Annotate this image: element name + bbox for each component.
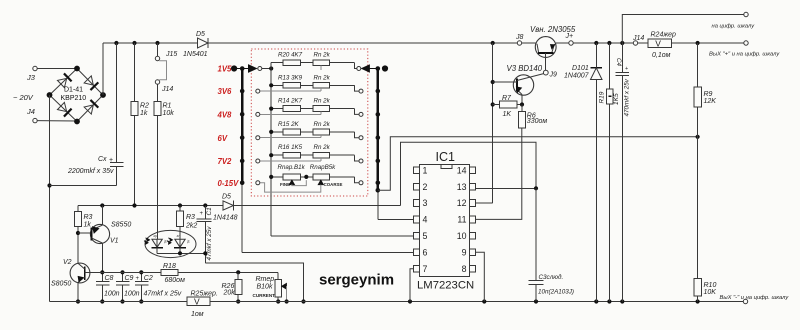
svg-text:IC1: IC1	[436, 150, 456, 164]
svg-text:HL: HL	[163, 240, 167, 244]
svg-text:С3слюд.: С3слюд.	[539, 273, 564, 281]
svg-text:B10k: B10k	[257, 284, 273, 291]
svg-text:на цифр. шкалу: на цифр. шкалу	[712, 24, 756, 30]
svg-text:Rn 2k: Rn 2k	[314, 144, 331, 151]
svg-text:R3: R3	[84, 214, 93, 221]
svg-text:1: 1	[423, 166, 428, 176]
svg-text:10K: 10K	[704, 289, 717, 296]
svg-text:R2: R2	[140, 103, 149, 110]
svg-text:8: 8	[462, 264, 467, 274]
svg-text:2200mkf x 35v: 2200mkf x 35v	[67, 168, 114, 175]
svg-text:1N5401: 1N5401	[183, 51, 208, 58]
svg-text:V: V	[655, 38, 661, 48]
svg-text:Rn 2k: Rn 2k	[314, 74, 331, 81]
svg-text:S8550: S8550	[111, 222, 131, 229]
svg-text:14: 14	[457, 166, 467, 176]
svg-text:1k: 1k	[140, 110, 148, 117]
svg-text:10k: 10k	[163, 110, 175, 117]
svg-text:J4: J4	[26, 107, 35, 116]
svg-text:1N4148: 1N4148	[213, 215, 238, 222]
svg-text:+: +	[109, 157, 113, 164]
svg-text:C2: C2	[144, 275, 153, 282]
svg-text:12: 12	[457, 198, 467, 208]
svg-text:330ом: 330ом	[527, 118, 548, 125]
svg-text:Cx: Cx	[98, 156, 107, 163]
svg-text:R19: R19	[599, 91, 606, 103]
svg-text:J3: J3	[26, 73, 36, 82]
svg-text:KBP210: KBP210	[61, 95, 87, 102]
svg-text:6V: 6V	[218, 134, 228, 143]
svg-text:10п(2А103J): 10п(2А103J)	[538, 289, 574, 296]
svg-text:LM7223CN: LM7223CN	[417, 280, 474, 292]
svg-text:47mkf x 25v: 47mkf x 25v	[206, 226, 213, 261]
svg-text:6: 6	[423, 248, 428, 258]
svg-text:COARSE: COARSE	[324, 182, 343, 187]
svg-text:FINE: FINE	[280, 182, 290, 187]
svg-text:R9: R9	[704, 91, 713, 98]
svg-text:R20 4K7: R20 4K7	[278, 52, 303, 59]
svg-text:Rnap.B1k: Rnap.B1k	[278, 164, 306, 171]
svg-text:R1: R1	[163, 103, 172, 110]
svg-text:D5: D5	[222, 194, 231, 201]
svg-text:C1: C1	[206, 207, 213, 216]
svg-text:J+: J+	[565, 33, 574, 40]
svg-text:V: V	[194, 297, 200, 307]
svg-text:3V6: 3V6	[218, 87, 233, 96]
svg-text:J14: J14	[632, 35, 644, 42]
svg-text:D101: D101	[572, 65, 589, 72]
svg-text:1k: 1k	[84, 222, 92, 229]
svg-text:Rmep.: Rmep.	[256, 276, 277, 283]
svg-text:sergeynim: sergeynim	[319, 272, 394, 289]
svg-text:J8: J8	[515, 34, 524, 41]
svg-text:10: 10	[457, 231, 467, 241]
svg-text:HL: HL	[186, 240, 190, 244]
svg-text:13: 13	[457, 182, 467, 192]
svg-text:~ 20V: ~ 20V	[13, 93, 34, 102]
svg-text:0-15V: 0-15V	[218, 179, 240, 188]
svg-text:R7: R7	[502, 95, 512, 102]
svg-text:+: +	[625, 66, 628, 72]
svg-text:CURRENT: CURRENT	[253, 293, 276, 298]
svg-text:J9: J9	[549, 72, 558, 79]
svg-text:R16 1K5: R16 1K5	[278, 144, 303, 151]
svg-text:R25жер.: R25жер.	[191, 290, 218, 297]
svg-text:R13 3K9: R13 3K9	[278, 74, 303, 81]
svg-text:R10: R10	[704, 282, 717, 289]
svg-text:2: 2	[423, 182, 428, 192]
svg-text:1V5: 1V5	[218, 65, 233, 74]
svg-text:S8050: S8050	[51, 281, 71, 288]
svg-text:RnapB5k: RnapB5k	[310, 164, 336, 171]
svg-text:1K5: 1K5	[613, 93, 620, 105]
svg-text:0,1ом: 0,1ом	[652, 52, 671, 59]
svg-text:7V2: 7V2	[218, 157, 233, 166]
svg-text:C9: C9	[125, 275, 134, 282]
svg-text:Rn 2k: Rn 2k	[314, 52, 331, 59]
svg-text:J14: J14	[161, 86, 173, 93]
svg-text:R3: R3	[186, 214, 195, 221]
svg-text:12K: 12K	[704, 98, 717, 105]
svg-text:R15 2K: R15 2K	[278, 121, 300, 128]
svg-text:100n: 100n	[104, 290, 120, 297]
svg-text:V2: V2	[63, 259, 72, 266]
svg-text:5: 5	[423, 231, 428, 241]
svg-text:ВыХ "+" и на цифр. шкалу: ВыХ "+" и на цифр. шкалу	[709, 52, 780, 58]
svg-text:V3 BD140: V3 BD140	[507, 64, 543, 73]
svg-text:Rn 2k: Rn 2k	[314, 121, 331, 128]
svg-text:R18: R18	[163, 263, 176, 270]
svg-text:1K: 1K	[503, 111, 512, 118]
svg-text:11: 11	[457, 215, 466, 225]
svg-text:2k2: 2k2	[185, 223, 197, 230]
svg-text:Rn 2k: Rn 2k	[314, 98, 331, 105]
svg-text:R24жер: R24жер	[651, 32, 677, 39]
svg-text:4V8: 4V8	[217, 111, 233, 120]
svg-text:D5: D5	[196, 31, 205, 38]
svg-text:D1-41: D1-41	[64, 87, 83, 94]
svg-text:ВыХ "-" и на цифр. шкалу: ВыХ "-" и на цифр. шкалу	[720, 295, 790, 301]
svg-text:1ом: 1ом	[191, 311, 204, 318]
svg-text:R14 2K7: R14 2K7	[278, 98, 303, 105]
svg-text:100n: 100n	[124, 290, 140, 297]
svg-text:+: +	[136, 276, 140, 282]
svg-text:4: 4	[423, 215, 428, 225]
svg-text:9: 9	[462, 248, 467, 258]
svg-text:J15: J15	[165, 51, 177, 58]
svg-text:47mkf x 25v: 47mkf x 25v	[144, 290, 182, 297]
svg-text:20k: 20k	[223, 290, 236, 297]
svg-text:C8: C8	[105, 275, 114, 282]
svg-text:680ом: 680ом	[165, 277, 186, 284]
svg-text:3: 3	[423, 198, 428, 208]
svg-text:1N4007: 1N4007	[564, 73, 590, 80]
svg-text:V1: V1	[110, 238, 119, 245]
svg-text:кр: кр	[154, 234, 158, 238]
svg-text:7: 7	[423, 264, 428, 274]
svg-text:470mkf x 25v: 470mkf x 25v	[623, 78, 630, 116]
svg-text:C4: C4	[615, 58, 622, 67]
svg-text:+: +	[200, 211, 204, 217]
